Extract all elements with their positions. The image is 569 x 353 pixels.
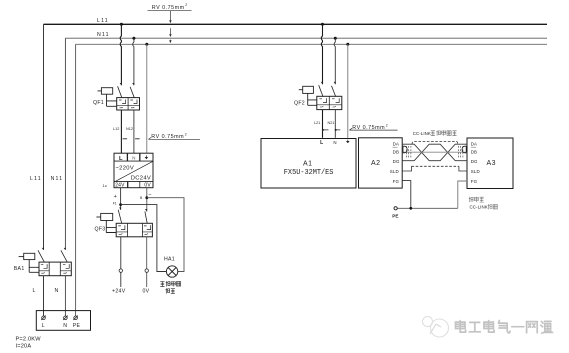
- wire N11 bus: [65, 37, 547, 39]
- wire QF1 N feed (hops over PE): [133, 38, 134, 85]
- wire +24V to lamp HA1: [121, 205, 167, 272]
- wire QF1 L feed (hops over N11 and PE): [120, 24, 121, 85]
- wire BA1 N out: [64, 276, 66, 316]
- wire +24V output with connector: [120, 237, 122, 287]
- wire FG A2 to PE: [402, 181, 411, 209]
- wire PE bus: [76, 43, 547, 45]
- svg-text:FG: FG: [393, 179, 400, 184]
- svg-text:N21: N21: [328, 121, 335, 125]
- svg-text:~220V: ~220V: [115, 166, 134, 172]
- wire spec tick marks on L12/N12: [123, 138, 140, 140]
- leader arrows from RV label to buses: [169, 11, 171, 44]
- svg-text:PE: PE: [392, 214, 398, 219]
- svg-text:CC-LINK: CC-LINK: [413, 131, 431, 136]
- svg-text:L: L: [119, 156, 123, 162]
- wire 0V output with connector: [146, 237, 148, 287]
- svg-text:N: N: [333, 140, 336, 145]
- label lamp caption (chinese: production line power indication): [160, 281, 180, 293]
- svg-text:F1: F1: [113, 201, 117, 205]
- svg-text:1c: 1c: [103, 183, 108, 188]
- svg-text:HA1: HA1: [164, 257, 175, 263]
- svg-text:PE: PE: [73, 323, 81, 329]
- cable hatch ticks left: [407, 146, 411, 159]
- node FG junction: [409, 207, 412, 210]
- label RV 0.75mm2 (top): [148, 3, 192, 11]
- wire N12: [133, 110, 135, 153]
- cable hatch ticks right: [459, 146, 463, 159]
- svg-text:A2: A2: [371, 160, 380, 167]
- svg-text:N: N: [55, 288, 59, 294]
- watermark logo icon: [423, 317, 449, 338]
- breaker BA1: [19, 248, 72, 276]
- svg-text:BA1: BA1: [14, 266, 25, 272]
- module A3 box: [467, 138, 513, 189]
- connector circle 0V: [145, 269, 148, 272]
- svg-text:L: L: [42, 323, 45, 329]
- node PE/PSU junction: [145, 43, 148, 46]
- svg-text:SLD: SLD: [390, 169, 399, 174]
- wire L11 bus: [44, 23, 548, 25]
- svg-text:CC-LINK: CC-LINK: [470, 205, 488, 210]
- svg-text:2: 2: [185, 133, 187, 137]
- svg-text:L11: L11: [97, 18, 109, 24]
- svg-text:DB: DB: [393, 150, 400, 155]
- cable shield bottom dashed: [412, 165, 459, 167]
- node N11/QF1 junction: [132, 37, 135, 40]
- power supply TC (220V to DC24V): [114, 153, 153, 188]
- label RV 0.75mm2 (PSU feed): [149, 133, 201, 141]
- label RV 0.75mm2 (PLC feed): [349, 123, 397, 131]
- node 0V junction to lamp: [145, 196, 148, 199]
- node N11/QF2 junction: [334, 37, 337, 40]
- svg-text:L12: L12: [113, 127, 119, 131]
- wire 0V to lamp HA1: [147, 198, 184, 272]
- breaker QF2: [299, 82, 342, 110]
- svg-text:N12: N12: [126, 127, 133, 131]
- cable connector right: [462, 146, 466, 153]
- ground symbol on PSU: [145, 155, 147, 157]
- pin note between DA/DB (A3): [471, 146, 476, 148]
- cable conductor DA (twisted): [402, 144, 467, 161]
- wire 0V from PSU: [146, 188, 148, 212]
- svg-text:N: N: [63, 323, 67, 329]
- svg-text:L21: L21: [314, 121, 320, 125]
- svg-text:I=20A: I=20A: [16, 344, 32, 350]
- svg-text:QF2: QF2: [294, 101, 305, 107]
- svg-text:FX5U-32MT/ES: FX5U-32MT/ES: [284, 169, 334, 177]
- cable connector left: [403, 146, 407, 153]
- svg-text:N11: N11: [97, 32, 110, 38]
- svg-text:N: N: [132, 155, 135, 160]
- svg-text:DG: DG: [471, 159, 478, 164]
- breaker QF3: [96, 208, 152, 237]
- svg-text:DA: DA: [393, 142, 400, 147]
- wire L12: [120, 110, 122, 153]
- terminal PE screw: [73, 316, 78, 320]
- svg-text:SLD: SLD: [471, 169, 480, 174]
- label robot CC-LINK module caption (chinese): [469, 197, 484, 202]
- watermark logo text (chinese: dian gong dian qi yi wang tong): [456, 321, 553, 334]
- cable conductor DG (twisted): [402, 144, 467, 161]
- svg-text:A1: A1: [303, 160, 312, 167]
- svg-text:QF3: QF3: [95, 226, 106, 232]
- wire PE link: [397, 207, 458, 209]
- svg-text:0V: 0V: [144, 183, 151, 189]
- PLC A1 box: [261, 139, 356, 189]
- node PE/PLC junction: [346, 43, 349, 46]
- cable shield top dashed: [412, 142, 457, 145]
- node L11/QF2 junction: [321, 23, 324, 26]
- node L11/QF1 junction: [120, 23, 123, 26]
- lamp HA1: [166, 266, 177, 277]
- wire FG A3 to PE: [458, 181, 467, 208]
- wire +24V from PSU: [120, 188, 122, 210]
- breaker QF1: [98, 83, 140, 110]
- svg-text:L: L: [320, 140, 323, 146]
- svg-text:L11: L11: [30, 176, 42, 182]
- svg-text:FG: FG: [471, 179, 478, 184]
- svg-text:+24V: +24V: [112, 289, 126, 295]
- wire BA1 L out: [43, 276, 45, 316]
- wire spec tick marks on L21/N21: [323, 129, 341, 131]
- svg-text:A3: A3: [487, 160, 496, 167]
- wire L11 left drop to BA1: [43, 24, 45, 250]
- wire QF2 L feed (hops over N11 and PE): [321, 24, 322, 84]
- svg-text:0V: 0V: [143, 289, 150, 295]
- svg-text:DC24V: DC24V: [131, 175, 151, 181]
- svg-text:L: L: [33, 288, 36, 294]
- terminal N screw: [63, 316, 68, 320]
- node +24V junction to lamp: [119, 203, 122, 206]
- wire PE left drop to terminal block: [75, 44, 77, 316]
- wire N21: [334, 110, 336, 138]
- wire QF2 N feed (hops over PE): [334, 38, 335, 84]
- cable shield SLD link: [402, 166, 467, 171]
- terminal block: [36, 311, 90, 331]
- module A2 box: [359, 138, 403, 188]
- PE terminal circle: [394, 207, 397, 210]
- svg-text:DB: DB: [471, 150, 478, 155]
- terminal L screw: [41, 316, 46, 320]
- wire PE drop to PSU ground terminal: [146, 44, 148, 153]
- ground symbol on A1: [347, 140, 349, 141]
- wire N11 left drop to BA1: [64, 38, 66, 250]
- svg-text:P=2.0KW: P=2.0KW: [16, 337, 42, 343]
- wire L21: [322, 110, 324, 138]
- svg-text:RV 0.75mm: RV 0.75mm: [152, 5, 185, 11]
- svg-text:N11: N11: [51, 176, 64, 182]
- cable conductor DB (straight): [402, 151, 467, 153]
- svg-text:DA: DA: [471, 142, 478, 147]
- svg-text:2: 2: [386, 123, 388, 127]
- svg-text:QF1: QF1: [93, 100, 104, 106]
- wire PE drop to PLC ground terminal: [347, 44, 349, 138]
- svg-text:+: +: [114, 194, 117, 200]
- svg-text:DG: DG: [393, 159, 400, 164]
- connector circle +24V: [119, 269, 122, 272]
- pin note between DA/DB (A2): [393, 146, 398, 148]
- svg-text:2: 2: [185, 3, 187, 7]
